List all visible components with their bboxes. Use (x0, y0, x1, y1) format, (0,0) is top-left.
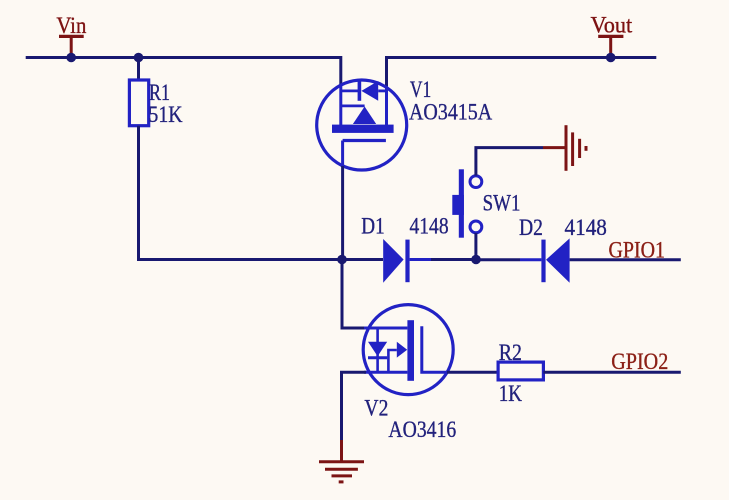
svg-text:D1: D1 (361, 214, 384, 240)
wire SW1 top to ground (476, 148, 543, 176)
wire V1 gate down to node A (341, 166, 344, 260)
node junction below SW1 (471, 255, 481, 265)
wire node A down to V2 drain (342, 260, 366, 329)
wire SW1 node to D2 (476, 258, 520, 261)
svg-text:4148: 4148 (410, 214, 449, 240)
node junction at Vout (606, 53, 616, 63)
svg-text:AO3416: AO3416 (388, 417, 456, 443)
wire R2 to GPIO2 (543, 371, 680, 374)
svg-text:AO3415A: AO3415A (409, 99, 492, 125)
diode D1 4148 (383, 239, 431, 283)
transistor V2 MOSFET AO3416 (363, 305, 453, 395)
svg-text:GPIO2: GPIO2 (611, 349, 668, 375)
wire V2 source to ground (342, 372, 367, 440)
port Vout (591, 13, 633, 58)
transistor V1 MOSFET AO3415A (317, 80, 407, 170)
svg-text:4148: 4148 (565, 215, 607, 241)
wire V2 gate to R2 (447, 371, 498, 374)
svg-text:1K: 1K (499, 381, 522, 407)
wire R1 bottom to node A (139, 126, 343, 260)
svg-text:51K: 51K (148, 102, 182, 128)
svg-text:Vout: Vout (591, 13, 633, 39)
svg-text:SW1: SW1 (483, 191, 521, 217)
wire node A to D1 (342, 258, 383, 261)
wire D2 to GPIO1 (570, 258, 681, 261)
svg-text:R2: R2 (499, 340, 522, 366)
wire D1 to SW1 node (431, 258, 476, 261)
wire SW1 bottom to node (474, 233, 477, 260)
ground (signal) top right (543, 125, 586, 171)
svg-text:D2: D2 (519, 215, 543, 241)
resistor R2 (498, 340, 543, 407)
node junction at Vin (66, 53, 76, 63)
diode D2 4148 (520, 238, 570, 282)
wire top rail right (V1 drain to Vout) (387, 58, 657, 88)
port Vin (56, 13, 86, 57)
wire top rail left (Vin to V1 source) (26, 58, 341, 87)
switch SW1 (452, 169, 482, 237)
resistor R1 (129, 80, 182, 128)
svg-text:GPIO1: GPIO1 (609, 238, 666, 264)
wire R1 top stub (137, 58, 140, 81)
node A junction (337, 255, 347, 265)
node junction at R1 top (134, 53, 144, 63)
ground (earth) bottom (319, 440, 364, 482)
svg-text:V2: V2 (364, 396, 388, 422)
